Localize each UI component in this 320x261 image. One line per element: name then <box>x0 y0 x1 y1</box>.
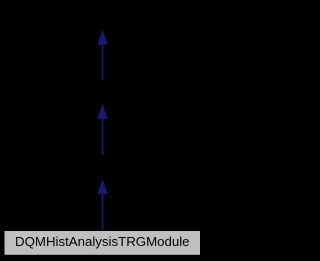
svg-text:DQMHistAnalysisTRGModule: DQMHistAnalysisTRGModule <box>15 234 190 249</box>
wire: inheritance arrow 3 (bottom, DQMHistAnalysisModule <- DQMHistAnalysisTRGModule) <box>97 179 107 231</box>
node DQMHistAnalysisTRGModule (current class box) <box>4 231 201 256</box>
wire: inheritance arrow 2 (middle, Module <- DQMHistAnalysisModule) <box>97 104 107 156</box>
wire: inheritance arrow 1 (top, PathElement <- Module) <box>97 30 107 81</box>
